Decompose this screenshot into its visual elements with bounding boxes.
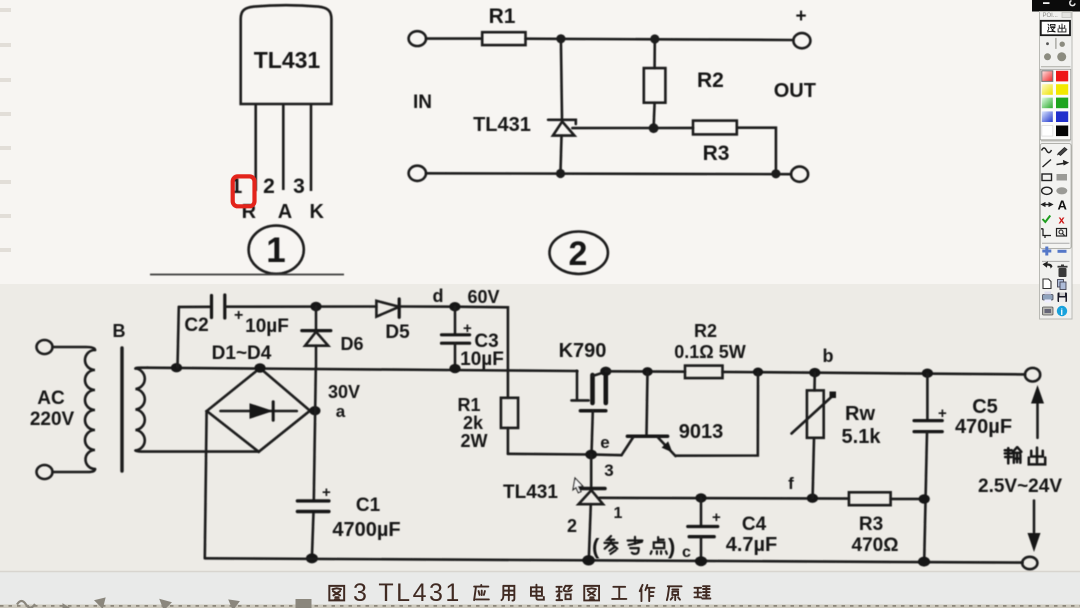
- svg-text:60V: 60V: [467, 287, 499, 307]
- pin 3 lead: [310, 104, 313, 191]
- arrow up (output): [1031, 385, 1044, 438]
- color palette: [1040, 69, 1070, 140]
- svg-text:10µF: 10µF: [245, 316, 289, 337]
- node C5 bottom: [918, 557, 930, 567]
- svg-text:(: (: [592, 534, 600, 559]
- left edge faint marks: [0, 8, 11, 252]
- tool: rectangle filled: [1057, 174, 1068, 181]
- wire C1 riser: [312, 368, 316, 558]
- resistor R1: [482, 32, 525, 45]
- resistor R2 (vertical): [644, 39, 724, 128]
- svg-text:A: A: [1058, 198, 1068, 213]
- pen size selector dots: [1044, 38, 1066, 61]
- reference point label (参考点)c: [592, 534, 691, 561]
- potentiometer Rw: [792, 373, 882, 498]
- node ref/R2/R3: [649, 123, 659, 133]
- node D6 top: [310, 302, 321, 311]
- svg-text:TL431: TL431: [473, 114, 531, 136]
- svg-text:10µF: 10µF: [460, 349, 504, 370]
- annotation toolbar (right side): [1032, 0, 1080, 319]
- 30V rail (secondary top to MOSFET gate): [147, 368, 577, 371]
- svg-text:470µF: 470µF: [955, 416, 1012, 438]
- svg-text:AC: AC: [37, 388, 65, 409]
- wire TL431 ref to R3: [572, 127, 693, 130]
- svg-text:i: i: [1061, 307, 1064, 317]
- tool: check mark: [1043, 216, 1051, 223]
- svg-text:d: d: [433, 286, 444, 306]
- tool: zoom minus: [1058, 250, 1067, 253]
- node K (junction TL431 cathode): [556, 34, 565, 43]
- node TL431 anode on rail: [582, 555, 594, 565]
- bridge rectifier D1-D4 (diamond): [207, 368, 310, 452]
- shunt regulator TL431 (main): [503, 455, 623, 561]
- node C1 bottom: [306, 553, 318, 563]
- svg-text:POI...: POI...: [1043, 13, 1059, 19]
- svg-text:R1: R1: [489, 5, 516, 28]
- svg-text:OUT: OUT: [774, 80, 816, 102]
- node f: [807, 494, 818, 503]
- svg-text:2W: 2W: [461, 431, 488, 451]
- background caption strip: [0, 572, 1080, 608]
- svg-text:+: +: [938, 405, 947, 422]
- exit button 退出: [1041, 21, 1070, 35]
- svg-text:C5: C5: [972, 396, 998, 418]
- tool: ellipse outline: [1042, 187, 1052, 194]
- svg-text:R1: R1: [457, 395, 480, 415]
- svg-text:TL431: TL431: [503, 482, 558, 503]
- node C4 bottom: [695, 556, 707, 566]
- svg-text:B: B: [113, 321, 126, 341]
- svg-text:R3: R3: [703, 142, 730, 165]
- svg-text:R2: R2: [694, 321, 717, 341]
- terminal AC bottom: [37, 465, 53, 479]
- transistor package TL431 (TO-92 body): [241, 5, 332, 104]
- svg-text:220V: 220V: [30, 409, 75, 430]
- wire primary to AC bottom: [53, 469, 96, 472]
- shunt regulator TL431 (figure 2 symbol): [548, 39, 576, 172]
- svg-text:x: x: [1059, 215, 1066, 227]
- svg-text:Rw: Rw: [845, 403, 875, 425]
- svg-text:2: 2: [569, 235, 588, 273]
- svg-text:D1~D4: D1~D4: [212, 343, 272, 364]
- svg-text:470Ω: 470Ω: [852, 535, 899, 556]
- svg-text:+: +: [234, 307, 243, 324]
- wire R1 to OUT+: [526, 39, 794, 40]
- pin 1 lead: [254, 104, 257, 191]
- svg-text:c: c: [682, 544, 691, 561]
- bottom edge bar with dashes: [0, 605, 1080, 608]
- bottom wire: [426, 172, 791, 175]
- transformer secondary winding: [136, 369, 145, 451]
- tool: zoom plus: [1042, 247, 1051, 256]
- svg-text:TL431: TL431: [254, 47, 321, 73]
- svg-text:A: A: [278, 201, 292, 223]
- wire D5 to 60V corner, down to R1: [399, 307, 508, 398]
- svg-text:1: 1: [614, 505, 623, 522]
- svg-text:0.1Ω 5W: 0.1Ω 5W: [674, 342, 745, 362]
- node R3/C5: [919, 494, 930, 503]
- capacitor C5: [914, 374, 1012, 562]
- svg-text:C2: C2: [184, 315, 208, 336]
- tool: ellipse filled: [1056, 187, 1067, 194]
- tool: copy pages: [1058, 280, 1067, 290]
- svg-text:1: 1: [266, 231, 285, 270]
- node bridge top vertex: [254, 363, 265, 372]
- tool: print: [1043, 292, 1054, 303]
- svg-text:a: a: [336, 402, 346, 421]
- mouse cursor: [573, 478, 583, 493]
- scan bottom shadow line: [0, 571, 1080, 573]
- resistor R1 (vertical box): [457, 395, 518, 454]
- wire collector to R2 right: [676, 372, 759, 456]
- bottom-left small tool glyphs: [17, 598, 311, 608]
- wire C2 left segment: [179, 305, 211, 308]
- node a (bridge right vertex): [309, 406, 320, 415]
- tool: marker pen: [1057, 148, 1067, 156]
- wire TL431 ref to f rail: [600, 496, 849, 499]
- resistor R3: [693, 121, 737, 135]
- tool: new page: [1043, 279, 1051, 289]
- wire secondary top stub: [136, 366, 149, 369]
- wire AC top to primary: [53, 347, 96, 350]
- circled figure number 1: [249, 226, 304, 274]
- tools box: [1040, 144, 1071, 249]
- tool: rectangle outline: [1042, 174, 1052, 181]
- node base riser: [642, 367, 652, 376]
- red annotation box around pin 1: [233, 176, 255, 206]
- transformer core B: [120, 348, 123, 471]
- terminal output +: [1025, 368, 1040, 382]
- svg-text:9013: 9013: [679, 421, 724, 443]
- node MOSFET drain on rail: [600, 367, 611, 376]
- circled figure number 2: [550, 232, 608, 274]
- node C3 bottom: [449, 364, 460, 373]
- caption: 图3 TL431应用电路图工作原理: [329, 579, 710, 607]
- tool: save floppy: [1058, 293, 1068, 303]
- background upper area: [0, 0, 1080, 284]
- svg-text:+: +: [712, 509, 721, 526]
- svg-text:K: K: [309, 201, 324, 223]
- terminal IN- (bottom left): [409, 166, 426, 181]
- svg-text:C1: C1: [356, 495, 381, 516]
- svg-text:C4: C4: [742, 514, 767, 535]
- label 输出 (output): [1005, 447, 1045, 464]
- svg-text:2: 2: [263, 175, 275, 198]
- wire C2 riser: [178, 307, 179, 367]
- svg-text:3 TL431: 3 TL431: [353, 579, 462, 607]
- toolbar panel: [1040, 12, 1073, 320]
- wire emitter to node e: [595, 453, 622, 456]
- MOSFET K790: [559, 340, 607, 454]
- background scanned schematic area: [0, 284, 1080, 572]
- wire R1 bottom to node e: [508, 452, 591, 455]
- node collector riser: [753, 368, 763, 377]
- svg-text:IN: IN: [413, 92, 432, 113]
- node R3 bottom: [771, 169, 780, 178]
- svg-text:f: f: [788, 474, 794, 493]
- divider line under figure 1: [150, 274, 344, 276]
- svg-text:3: 3: [293, 175, 305, 198]
- node C4 top: [695, 493, 706, 502]
- svg-text:+: +: [322, 484, 331, 501]
- tool: line: [1043, 160, 1052, 168]
- svg-text:4700µF: 4700µF: [332, 519, 400, 541]
- node d: [449, 302, 460, 311]
- svg-text:D5: D5: [385, 322, 410, 343]
- arrow down (output): [1028, 501, 1041, 552]
- node e: [585, 450, 597, 460]
- svg-text:2.5V~24V: 2.5V~24V: [978, 476, 1062, 497]
- resistor R3 (470 ohm): [849, 492, 924, 556]
- svg-text:R3: R3: [859, 514, 883, 535]
- terminal OUT- (bottom right): [791, 167, 808, 182]
- wire R3 to corner: [737, 128, 776, 174]
- svg-text:2k: 2k: [463, 413, 484, 433]
- wire C2 to D5: [226, 305, 377, 308]
- capacitor C2: [184, 295, 288, 337]
- wire secondary bottom: [136, 451, 260, 452]
- capacitor C4: [688, 498, 777, 561]
- tool: arrow: [1057, 161, 1069, 165]
- transistor 9013: [600, 372, 723, 456]
- svg-text:5.1k: 5.1k: [842, 426, 882, 448]
- svg-text:3: 3: [604, 461, 613, 480]
- terminal OUT+ (top right): [793, 33, 810, 48]
- svg-text:e: e: [600, 433, 609, 452]
- svg-text:D6: D6: [340, 334, 363, 354]
- tool: undo arrow: [1043, 261, 1053, 268]
- diode D5 (horizontal): [376, 299, 410, 343]
- terminal AC top: [37, 340, 53, 354]
- output rail (drain to OUT+): [606, 371, 1025, 374]
- node b: [809, 368, 820, 377]
- tool: info: [1057, 306, 1067, 317]
- svg-text:+: +: [795, 6, 806, 27]
- tool: double arrow: [1042, 203, 1053, 207]
- tool: trash can: [1058, 265, 1068, 278]
- terminal output -: [1022, 557, 1037, 569]
- svg-text:2: 2: [567, 516, 577, 536]
- node R2 top: [650, 34, 659, 43]
- toolbar title bar (black): [1032, 0, 1080, 12]
- svg-text:K790: K790: [559, 340, 607, 362]
- tool: image export: [1043, 307, 1054, 315]
- svg-text:4.7µF: 4.7µF: [726, 534, 778, 556]
- svg-text:b: b: [823, 346, 834, 366]
- terminal IN+ (top left): [409, 31, 426, 46]
- svg-text:30V: 30V: [328, 382, 360, 402]
- tool: freehand pen: [1042, 148, 1052, 153]
- tool: zoom box: [1057, 229, 1067, 237]
- svg-text:R2: R2: [697, 69, 724, 92]
- node C5 top: [922, 369, 933, 378]
- node secondary top: [171, 363, 182, 372]
- wire bridge left vertex down to ground rail: [205, 411, 207, 558]
- svg-text:+: +: [463, 320, 472, 337]
- svg-text:): ): [668, 534, 675, 559]
- pin 2 lead: [282, 104, 285, 190]
- node TL431 anode: [556, 169, 565, 178]
- resistor R2 (0.1ohm 5W): [674, 321, 745, 378]
- ground rail (bottom): [205, 558, 1022, 562]
- tool: crop frame: [1041, 229, 1051, 239]
- transformer primary winding: [85, 350, 95, 469]
- capacitor C3: [442, 307, 504, 370]
- wire top-left to R1: [426, 37, 482, 40]
- diode D6 (vertical, cathode bar up): [302, 307, 364, 369]
- capacitor C1: [297, 484, 400, 541]
